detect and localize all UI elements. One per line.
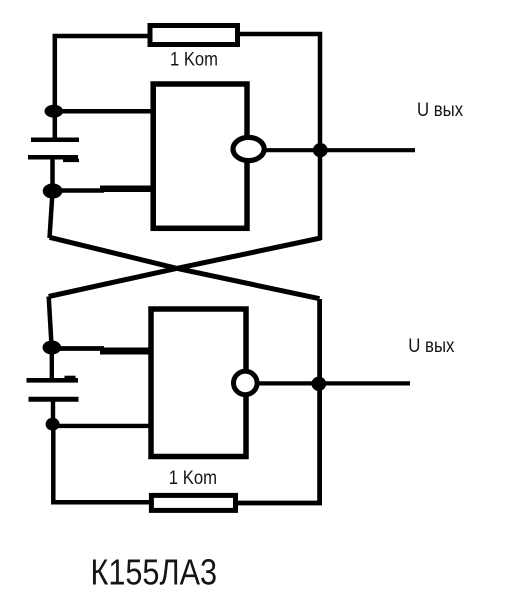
gate U2 (NAND body) [151,309,246,457]
wire C1 bottom plate to junction [50,157,55,192]
wire U1 output to U вых (top) [263,148,416,152]
resistor R1 [150,26,238,45]
cross-coupling wire: U1 side to U2 output (diagonal A) [50,237,320,298]
svg-text:1 Kom: 1 Kom [169,467,217,488]
wire junction down to resistor R2 (bottom-left corner) [53,424,150,502]
node dot: C2 bottom / U2 input 2 junction [46,418,60,431]
inversion bubble of U1 [233,137,264,160]
wire junction to U1 input 2 [52,189,153,191]
svg-text:1 Kom: 1 Kom [170,48,218,69]
gate U1 (NAND body) [153,84,247,228]
wire junction to U1 input 1 [53,109,154,114]
wire junction to C2 top plate [50,348,54,382]
svg-text:К155ЛА3: К155ЛА3 [91,552,218,593]
wire junction to U2 input 1 [52,349,153,352]
node dot: C1 top / U1 input 1 junction [45,105,64,118]
resistor R2 [151,495,235,510]
capacitor C2 [27,377,79,399]
wire U2 output to U вых (bottom) [257,381,410,385]
inversion bubble of U2 [234,371,258,394]
wire diagonal corner down to C2 junction [49,297,52,348]
wire C2 bottom plate to junction [51,399,55,425]
svg-text:U вых: U вых [417,99,463,120]
svg-text:U вых: U вых [408,335,454,356]
node dot: C2 top / U2 input 1 junction [43,341,62,355]
wire from C1 top to resistor R1 (top-left corner) [55,36,149,140]
node dot: U1 output junction [313,143,328,157]
wire from R1 to output node A (top-right corner, right vertical) [239,34,320,240]
wire junction down to cross-coupling corner (left) [50,192,53,238]
node dot: U2 output junction [311,377,326,391]
cross-coupling wire: U1 output to U2 side (diagonal B) [49,238,321,297]
wire junction to U2 input 2 [53,424,153,428]
wire R2 to output node B (bottom-right corner, right vertical) [237,299,320,503]
capacitor C1 [28,140,79,161]
node dot: C1 bottom / U1 input 2 junction [43,183,63,198]
